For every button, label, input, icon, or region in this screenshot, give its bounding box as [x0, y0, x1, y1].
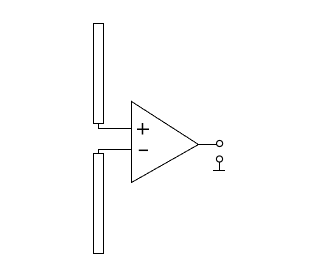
ground terminal (open circle) [216, 156, 222, 162]
wire from R1 bottom to op-amp non-inverting input [99, 124, 132, 129]
resistor R1 (top vertical rectangle) [94, 24, 104, 124]
op-amp U1 (triangle) [132, 102, 199, 183]
ground stem wire [219, 162, 221, 170]
op-amp minus input label [139, 149, 148, 151]
wire from op-amp output to terminal [199, 144, 217, 146]
wire from R2 top to op-amp inverting input [99, 150, 132, 154]
resistor R2 (bottom vertical rectangle) [94, 154, 104, 254]
output terminal (open circle) [217, 140, 223, 146]
ground bar [213, 170, 225, 172]
op-amp plus input label [137, 123, 149, 135]
